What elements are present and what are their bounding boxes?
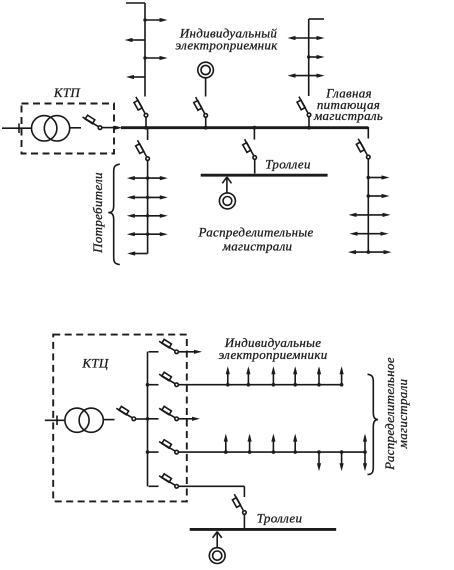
svg-text:КТП: КТП [53, 85, 81, 100]
svg-text:электроприемники: электроприемники [218, 347, 327, 362]
svg-text:КТЦ: КТЦ [81, 356, 108, 371]
svg-text:магистрали: магистрали [222, 239, 293, 254]
svg-text:Потребители: Потребители [90, 172, 105, 254]
svg-text:магистрали: магистрали [395, 378, 410, 449]
svg-text:Распределительные: Распределительные [197, 225, 313, 240]
svg-text:Троллеи: Троллеи [257, 511, 303, 526]
svg-text:магистраль: магистраль [313, 108, 383, 123]
svg-text:электроприемник: электроприемник [175, 37, 278, 52]
svg-text:Троллеи: Троллеи [265, 156, 311, 171]
